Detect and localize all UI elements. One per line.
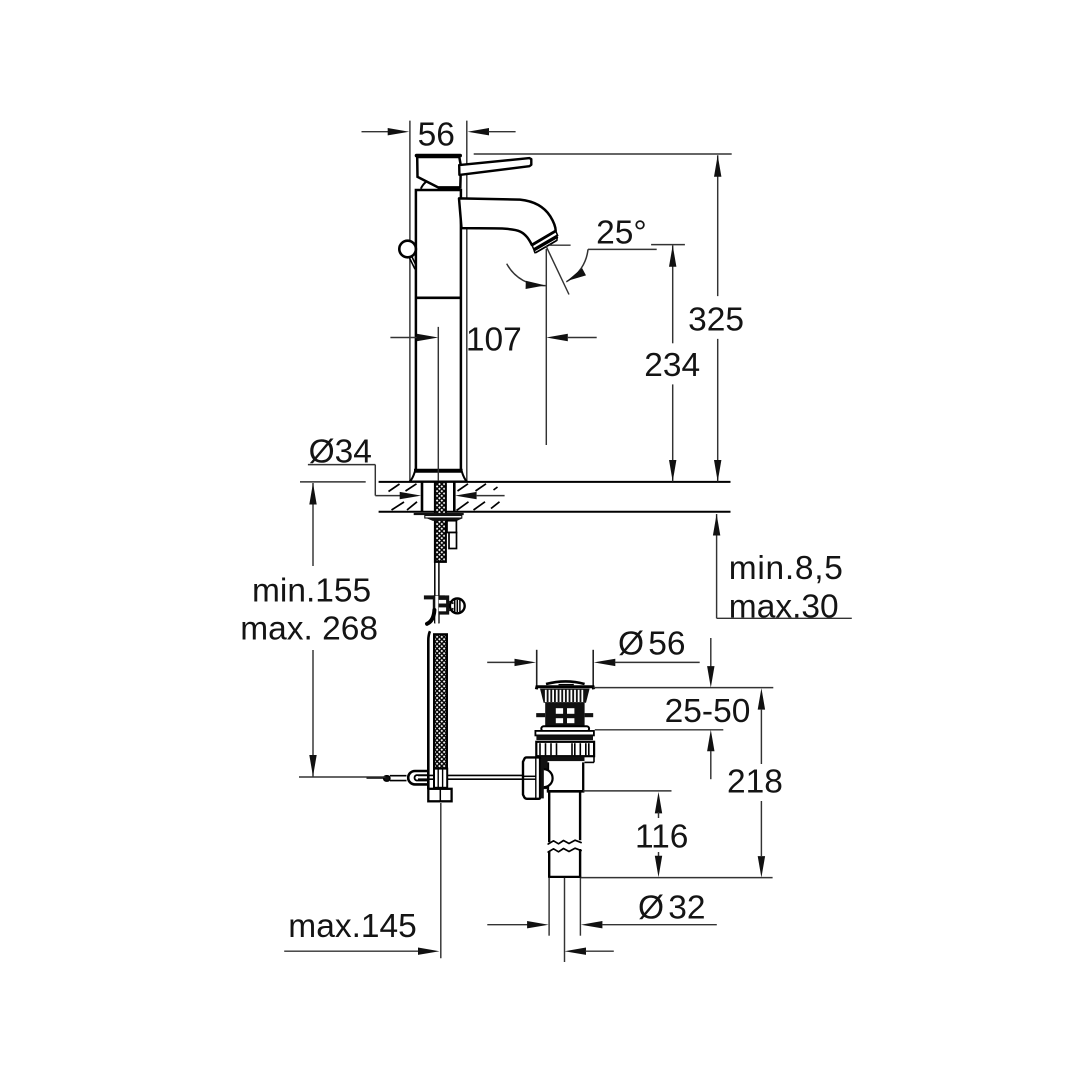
svg-text:min.155: min.155 <box>252 573 371 610</box>
svg-text:116: 116 <box>635 818 688 855</box>
svg-text:Ø: Ø <box>638 890 664 927</box>
svg-text:325: 325 <box>688 302 744 339</box>
svg-text:25-50: 25-50 <box>665 693 751 730</box>
svg-text:25°: 25° <box>596 215 647 252</box>
svg-text:218: 218 <box>727 764 783 801</box>
svg-text:234: 234 <box>644 347 700 384</box>
svg-text:56: 56 <box>418 116 455 153</box>
svg-text:32: 32 <box>668 890 705 927</box>
svg-text:max.30: max.30 <box>729 589 839 626</box>
svg-text:min.8,5: min.8,5 <box>729 550 844 587</box>
svg-text:max.145: max.145 <box>288 908 417 945</box>
svg-text:Ø: Ø <box>618 625 644 662</box>
svg-text:107: 107 <box>466 322 522 359</box>
svg-text:max. 268: max. 268 <box>240 611 378 648</box>
svg-text:56: 56 <box>648 625 685 662</box>
